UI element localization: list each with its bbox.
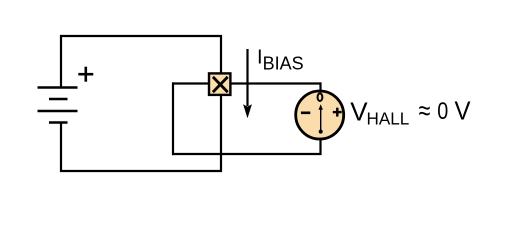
wire right upper (loop to sensor top) [220, 35, 222, 73]
label VHALL [350, 95, 471, 128]
svg-text:0: 0 [437, 98, 448, 125]
wire bottom [60, 170, 222, 172]
battery [38, 88, 78, 123]
hall sensor (X square) [209, 73, 230, 95]
wire left upper [60, 35, 62, 88]
wire inner vertical [172, 82, 174, 155]
wire top [60, 35, 222, 37]
wire left lower [60, 123, 62, 173]
svg-text:V: V [455, 96, 472, 126]
svg-text:HALL: HALL [367, 108, 410, 128]
wire voltmeter top [319, 82, 321, 91]
voltmeter minus [301, 112, 310, 115]
wire sensor bottom to bottom wire [220, 96, 222, 172]
current arrow IBIAS [243, 49, 252, 118]
voltmeter [296, 91, 344, 139]
svg-text:≈: ≈ [419, 95, 431, 126]
wire sensor left [172, 82, 209, 84]
voltmeter 0 mark [318, 93, 323, 101]
voltmeter plus [333, 108, 342, 117]
battery plus label [78, 67, 93, 82]
wire sensor right [231, 82, 322, 84]
svg-text:IBIAS: IBIAS [257, 47, 304, 74]
voltmeter needle [319, 104, 323, 133]
wire inner horizontal [172, 153, 322, 155]
wire voltmeter bottom [319, 139, 321, 155]
